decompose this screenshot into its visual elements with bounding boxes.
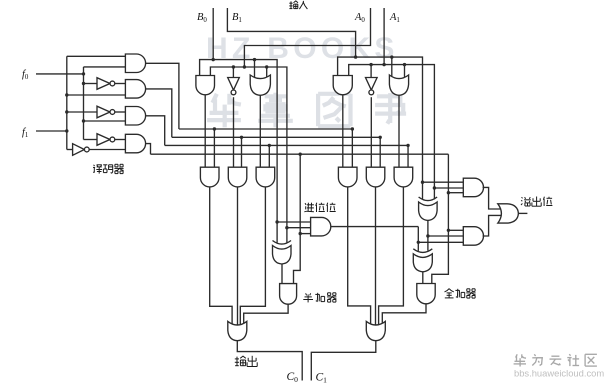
svg-text:bbs.huaweicloud.com: bbs.huaweicloud.com xyxy=(514,368,604,379)
